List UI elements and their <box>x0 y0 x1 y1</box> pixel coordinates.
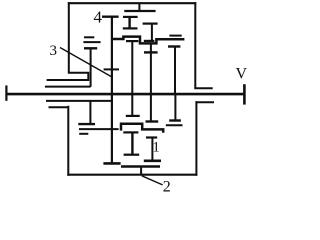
sun gear cap lower <box>126 115 140 117</box>
planet I-beam top cap <box>123 16 138 18</box>
svg-text:3: 3 <box>50 43 58 59</box>
fixed bottom long cap <box>121 165 160 167</box>
left gear upper cap <box>84 47 97 49</box>
leader line for 2 <box>142 176 163 185</box>
frame housing top edge <box>68 2 197 4</box>
right gear upper stem <box>174 47 176 94</box>
frame left bearing lip upper (Z-shape) <box>47 73 89 80</box>
left gear lower cap <box>78 123 95 125</box>
svg-text:V: V <box>236 66 248 83</box>
right shaft end cap (V) <box>243 84 246 104</box>
gear 3 disc vertical <box>111 17 113 164</box>
left gear upper mesh dash <box>84 36 94 38</box>
left shaft end cap <box>5 85 7 100</box>
left gear lower mesh dash long <box>79 128 119 130</box>
carrier hub line upper <box>45 86 91 88</box>
left gear upper mesh dash 2 <box>83 41 100 43</box>
bottom I-beam stem <box>131 132 133 154</box>
leader line for 3 <box>60 48 111 77</box>
top right I-beam stem <box>151 24 153 41</box>
gear 2 big cap <box>144 160 161 163</box>
frame bottom edge <box>67 174 197 176</box>
gear 3 cross dash <box>104 68 119 70</box>
left gear upper stem <box>90 48 92 87</box>
top right I-beam bottom cap <box>144 40 155 42</box>
svg-text:4: 4 <box>94 7 103 26</box>
ring gear top channel <box>112 37 184 44</box>
fixed bottom stem <box>140 167 142 175</box>
right gear upper cap <box>168 45 180 47</box>
bottom I-beam top cap <box>123 131 138 133</box>
left gear lower stem <box>89 101 91 124</box>
right lower gear stem <box>174 95 176 120</box>
frame right wall upper <box>194 2 196 88</box>
top right I-beam top cap <box>143 23 158 25</box>
lower gear cap 137 <box>146 136 157 138</box>
sun gear stem <box>131 41 133 116</box>
frame right wall lower <box>195 101 197 176</box>
frame right bearing lip lower <box>195 101 214 103</box>
long stem through shaft <box>150 45 152 122</box>
fixed support long cap <box>124 10 155 12</box>
svg-text:1: 1 <box>153 140 160 156</box>
right gear mesh dash <box>169 35 181 37</box>
planet I-beam bottom cap <box>123 27 138 29</box>
left gear lower mesh dash 2 <box>79 133 88 135</box>
frame left wall upper <box>68 2 70 73</box>
frame left wall lower <box>67 106 69 176</box>
right lower gear cap <box>169 119 181 121</box>
sun gear cap upper <box>126 40 138 42</box>
ring gear bottom channel <box>121 124 163 133</box>
main shaft <box>6 93 243 96</box>
gear 3 top cap (gear 4 rim) <box>102 16 119 18</box>
gear 3 bottom cap <box>103 162 120 165</box>
carrier hub line lower <box>46 100 112 102</box>
frame left bearing lip lower <box>49 106 69 108</box>
lower right gear cap on stem 152 <box>146 120 159 122</box>
planet I-beam stem <box>128 17 130 29</box>
fixed support stem on frame top <box>138 3 140 11</box>
right lower mesh dash <box>166 124 183 126</box>
bottom I-beam bottom cap <box>124 154 140 156</box>
frame right bearing lip upper <box>194 87 212 89</box>
lower gear stem <box>151 138 153 161</box>
gear cap below ring channel <box>144 51 158 53</box>
svg-text:2: 2 <box>163 178 171 192</box>
